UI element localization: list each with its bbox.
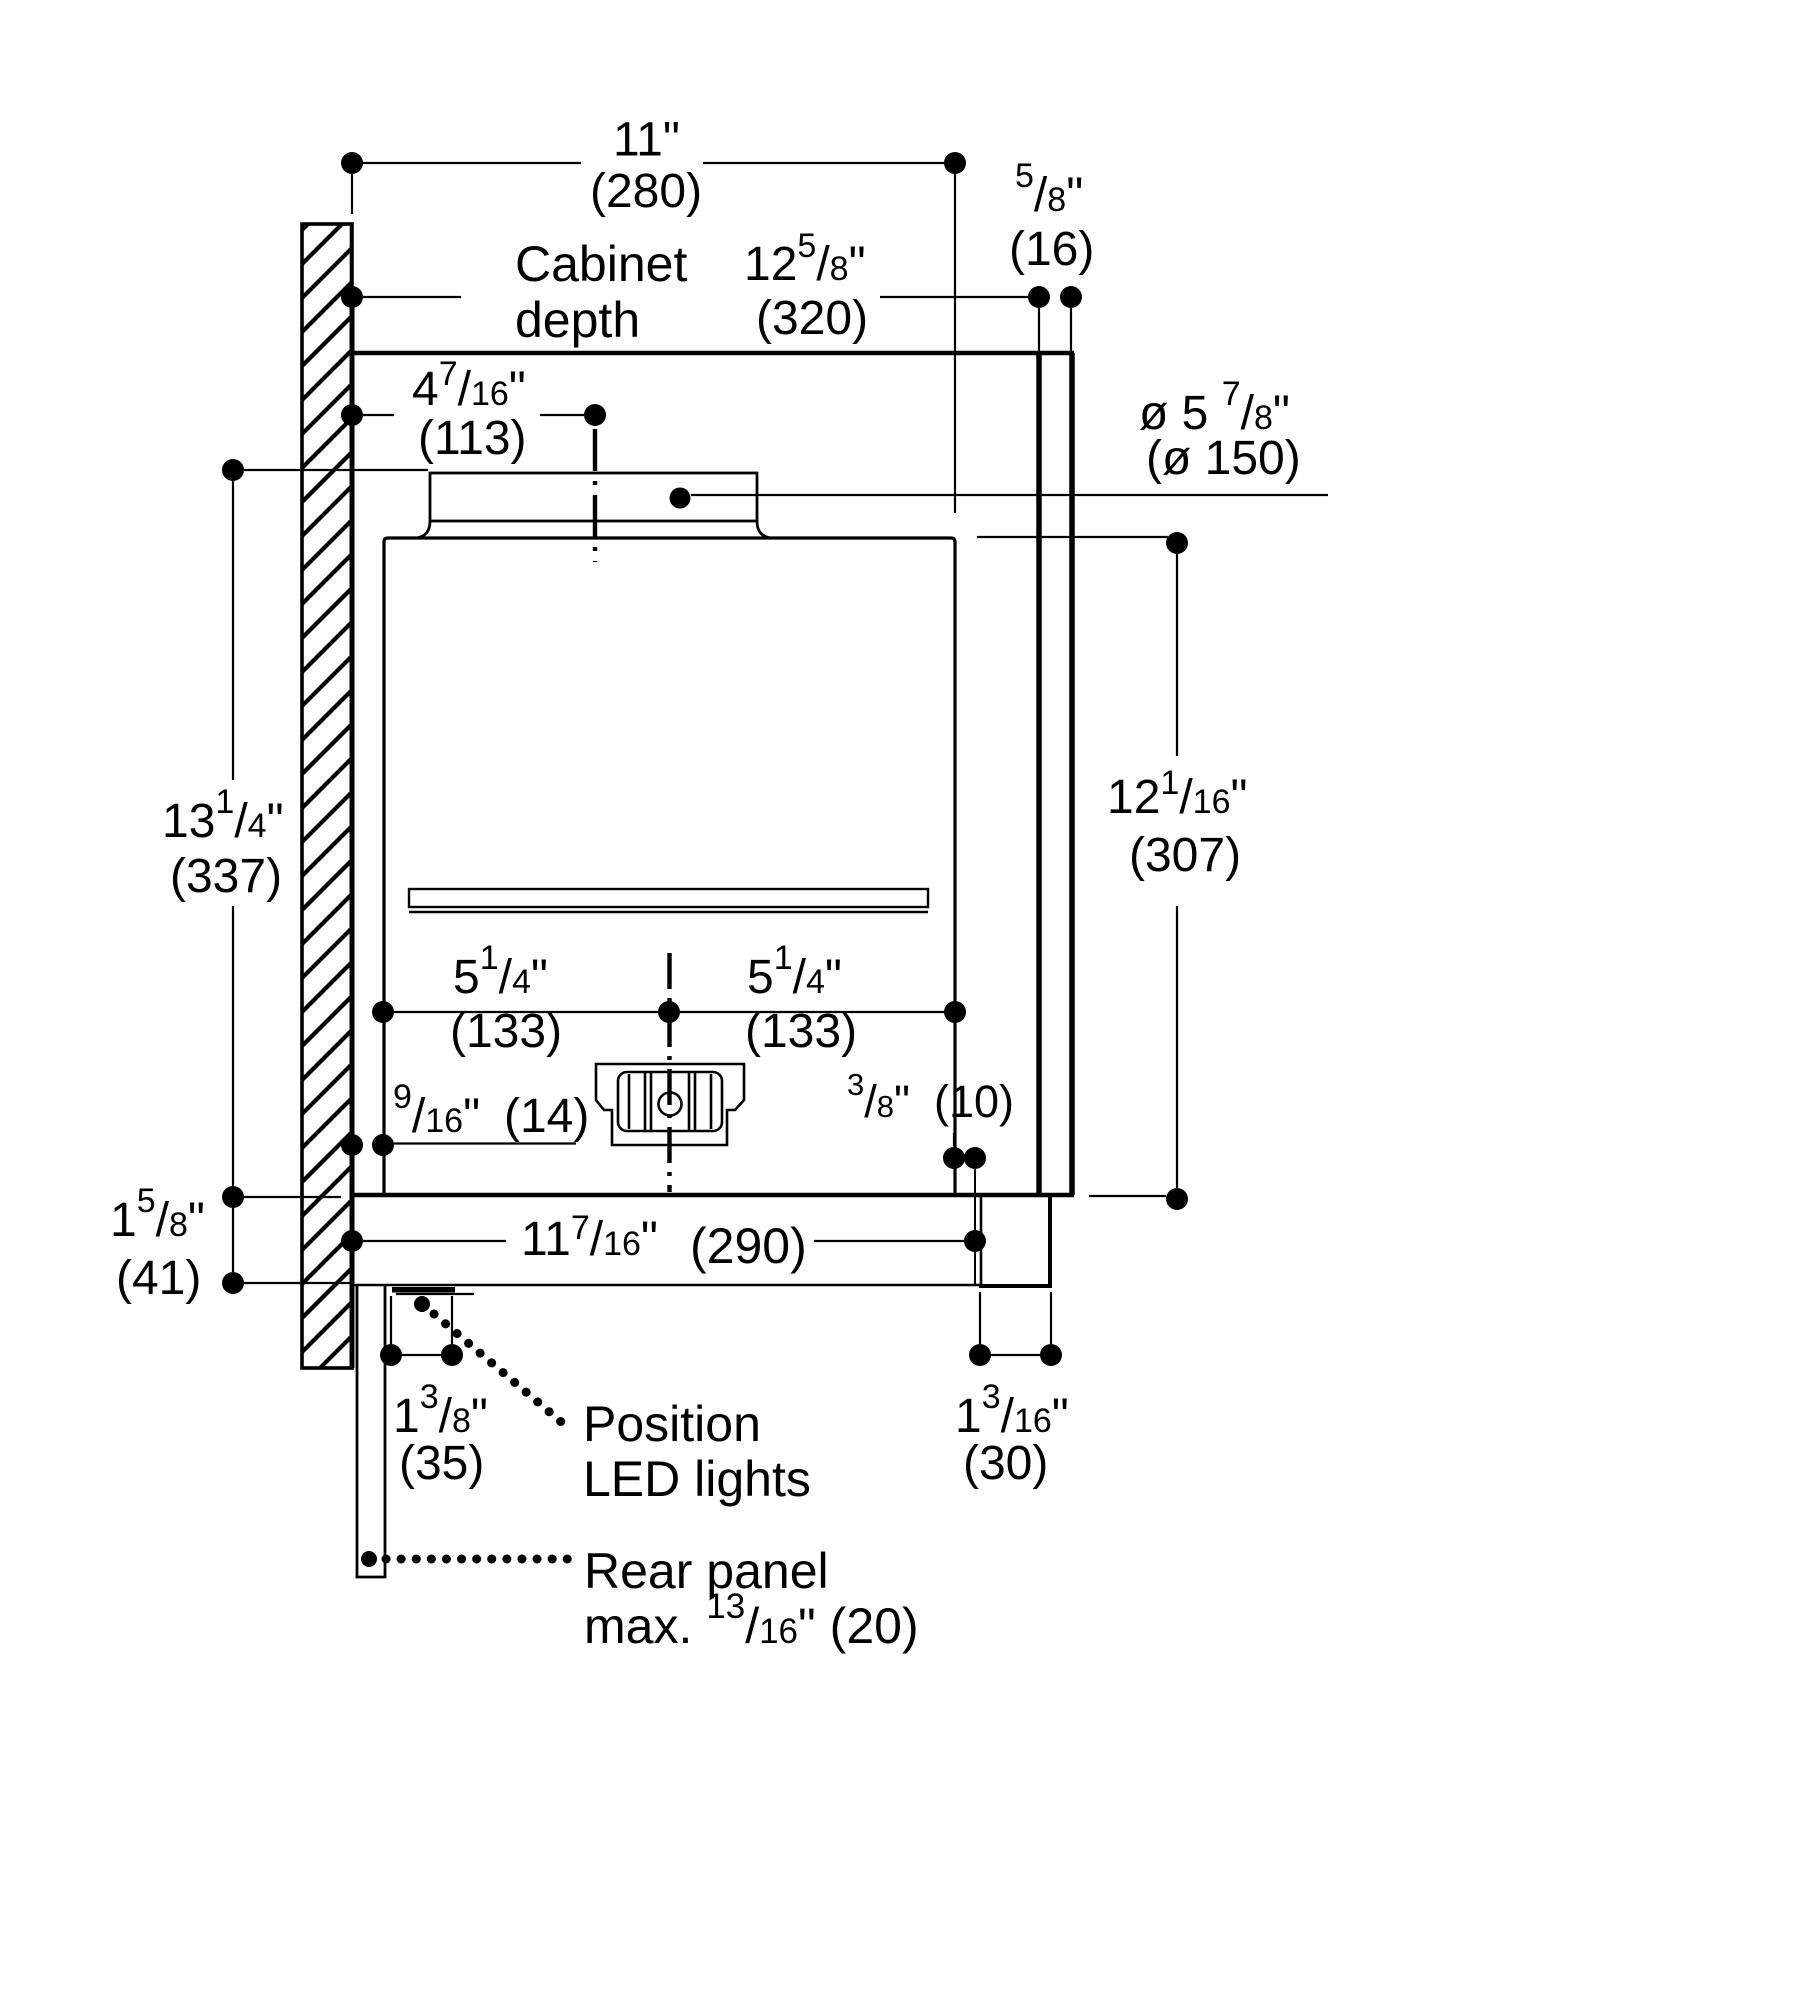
svg-text:(337): (337) [170,850,282,903]
cabinet side panel inner line [1036,353,1042,1195]
svg-text:(290): (290) [690,1218,807,1274]
svg-text:47/16": 47/16" [412,355,526,416]
label Cabinet depth [515,236,687,348]
dimension 5/8" (16) [1009,157,1094,351]
leader duct diameter [670,488,1329,509]
hood bottom line [352,1193,1074,1198]
dimension 13 1/4" (337) [162,459,428,1186]
dimension 5 1/4" (133) right [680,939,966,1058]
dimension 3/8" (10) [847,1067,1014,1285]
dimension 1 3/8" (35) [380,1296,488,1490]
label diameter 5 7/8" (150) [1139,375,1301,485]
LED lamp [392,1287,474,1294]
svg-text:(133): (133) [450,1005,562,1058]
leader Rear panel [361,1543,919,1654]
svg-text:(14): (14) [504,1090,589,1143]
damper bracket [596,1064,744,1145]
svg-text:(30): (30) [963,1437,1048,1490]
damper roller [618,1072,722,1131]
svg-text:(113): (113) [418,412,527,465]
svg-text:(133): (133) [745,1005,857,1058]
air outlet box [979,1197,1052,1288]
dimension 11 7/16" (290) [341,1209,986,1274]
svg-text:(ø 150): (ø 150) [1146,432,1301,485]
wall (hatched masonry) [300,178,354,1422]
filter bar [409,889,928,912]
dimension 1 3/16" (30) [955,1292,1069,1490]
dimension 9/16" (14) [341,1078,589,1156]
duct collar [417,473,770,538]
leader Position LED lights [414,1296,811,1507]
svg-text:(41): (41) [116,1252,201,1305]
svg-text:11": 11" [613,114,680,167]
svg-text:LED lights: LED lights [583,1451,811,1507]
dimension 4 7/16" (113) [341,355,606,465]
svg-text:(16): (16) [1009,223,1094,276]
cabinet side panel outer line [1069,353,1075,1195]
dimension 5 1/4" (133) left [372,939,680,1058]
duct collar centerline [593,429,597,562]
svg-text:Cabinet: Cabinet [515,236,687,292]
svg-text:Position: Position [583,1396,761,1452]
dimension 1 5/8" (41) [110,1182,352,1305]
hood body outline [384,538,955,1196]
svg-text:(10): (10) [934,1076,1014,1127]
bottom band lower edge [353,1284,981,1286]
dimension 12 5/8" (320) cabinet depth [341,227,1028,345]
svg-text:depth: depth [515,292,640,348]
svg-text:(307): (307) [1129,829,1241,882]
wall face / hood rear line [351,224,352,1368]
svg-text:max. 13/16" (20): max. 13/16" (20) [584,1587,919,1654]
svg-text:(280): (280) [590,165,702,218]
svg-text:(320): (320) [756,292,868,345]
svg-text:(35): (35) [399,1437,484,1490]
rear panel [356,1285,387,1577]
cabinet top panel [352,351,1074,356]
dimension 11" (280) [341,114,966,514]
dimension 12 1/16" (307) [977,532,1248,1210]
damper centerline [667,953,671,1192]
